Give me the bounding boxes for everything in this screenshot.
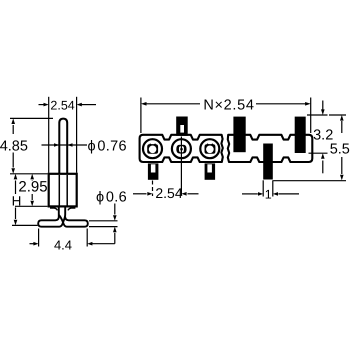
pin2 contact (crescents + bush) [176, 145, 180, 154]
dimension 4.4 (leg span) [30, 229, 115, 247]
svg-text:ϕ 0.76: ϕ 0.76 [88, 139, 127, 155]
svg-text:4.4: 4.4 [54, 238, 72, 253]
body bottom chamfer ledge [50, 208, 75, 210]
pin2 centre line [180, 137, 182, 196]
svg-text:5.5: 5.5 [330, 142, 350, 158]
svg-text:4.85: 4.85 [0, 138, 28, 154]
SMT leg bending right [59, 215, 88, 227]
pin (square post, side view) [59, 119, 67, 174]
pin3 bottom solder tab [205, 163, 216, 179]
svg-text:1: 1 [265, 188, 272, 202]
pin1 retention circle [143, 139, 162, 158]
pin2 top solder tab [176, 117, 188, 136]
tab A top [233, 117, 245, 153]
svg-text:2.95: 2.95 [18, 179, 47, 196]
svg-text:N×2.54: N×2.54 [203, 97, 254, 113]
SMT leg bending left (adjacent pin) [38, 207, 65, 227]
pin1 bottom solder tab [148, 163, 159, 179]
pin shank through insulator body [59, 175, 67, 206]
dimension phi 0.76 (pin diameter leader) [42, 144, 88, 146]
tab C top [295, 117, 306, 153]
dimension 5.5 (overall height) [273, 115, 346, 181]
pin2 retention circle [172, 139, 191, 158]
dimension phi 0.6 (leg diameter) [89, 204, 118, 244]
dimension 1 (tab width) [242, 180, 299, 196]
dimension 2.54 (top, body width) [39, 97, 97, 173]
dimension H (mounted height) [12, 181, 38, 226]
dimension 3.2 (tab length) [307, 101, 328, 174]
dimension N x 2.54 (top) [141, 98, 311, 134]
pin3 contact (black square with hole) [205, 143, 216, 153]
insulator body (side view) [49, 174, 77, 207]
pin1 contact (black square with hole) [147, 143, 158, 153]
svg-text:2.54: 2.54 [50, 98, 74, 112]
body outline, left portion (3 pin sections with scallops, torn right edge) [140, 135, 223, 162]
pin3 retention circle [200, 139, 219, 158]
svg-text:H: H [12, 193, 22, 208]
body outline, right portion (torn left edge, rounded right end) [228, 135, 312, 162]
svg-text:2.54: 2.54 [155, 185, 182, 201]
pin1 extension line (dashed) [152, 181, 154, 197]
tab B bottom [263, 144, 273, 180]
svg-text:ϕ 0.6: ϕ 0.6 [96, 190, 127, 206]
dimension 2.54 (pitch, bottom left) [133, 193, 199, 195]
dimension 2.95 (body height) [15, 180, 48, 206]
dimension 4.85 (pin height above body) [10, 118, 53, 173]
